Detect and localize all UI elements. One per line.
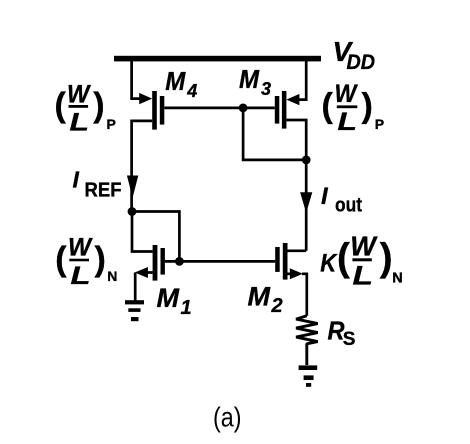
- svg-text:N: N: [392, 271, 402, 287]
- ground symbol under M1: [125, 300, 144, 321]
- svg-text:K: K: [320, 250, 338, 278]
- transistor M3 gate bar: [275, 96, 280, 124]
- node A: IREF node: [128, 207, 137, 216]
- wire: PMOS gate line M4 to M3: [164, 107, 274, 110]
- svg-text:DD: DD: [347, 51, 376, 74]
- M4 label: [165, 66, 197, 101]
- svg-text:(: (: [322, 87, 334, 125]
- wire: node A down to M1 drain lead: [132, 212, 153, 252]
- transistor M3 channel bar: [282, 91, 287, 129]
- node: PMOS gate junction: [239, 104, 248, 113]
- IREF label: [73, 166, 122, 201]
- current arrow Iout: [300, 192, 312, 213]
- (W/L)P label right: [322, 80, 385, 136]
- svg-text:L: L: [338, 108, 358, 136]
- M3 label: [239, 64, 271, 99]
- svg-text:(: (: [337, 236, 350, 279]
- transistor M4 (PMOS) source arrow: [139, 93, 152, 104]
- svg-text:P: P: [375, 116, 384, 132]
- wire: M3 diode connection: [243, 108, 306, 160]
- (W/L)P label left: [55, 81, 116, 137]
- wire: VDD rail to M3 source: [297, 60, 306, 100]
- wire: M2 source lead down to resistor: [288, 274, 307, 316]
- RS label: [328, 315, 356, 350]
- VDD power rail: [114, 56, 321, 62]
- svg-text:1: 1: [181, 297, 192, 319]
- K(W/L)N label: [320, 230, 402, 290]
- wire: M2 drain lead: [288, 249, 307, 252]
- node: M3 drain junction: [302, 156, 311, 165]
- svg-text:W: W: [67, 81, 92, 109]
- wire: M3 drain lead down to M2 drain: [286, 120, 306, 251]
- svg-text:): ): [362, 87, 373, 125]
- svg-text:M: M: [248, 282, 271, 312]
- node B: gate line junction: [175, 257, 184, 266]
- svg-text:W: W: [350, 230, 378, 261]
- svg-text:W: W: [68, 233, 93, 261]
- svg-text:out: out: [335, 194, 362, 216]
- svg-text:): ): [93, 87, 104, 125]
- current arrow IREF: [127, 176, 138, 198]
- transistor M1 gate bar: [161, 248, 165, 275]
- svg-text:N: N: [107, 268, 117, 284]
- wire: NMOS gate line M1 to M2: [165, 260, 275, 263]
- transistor M4 gate bar: [160, 96, 165, 125]
- svg-text:2: 2: [271, 295, 283, 317]
- svg-text:3: 3: [261, 79, 271, 99]
- VDD label: [333, 36, 376, 74]
- wire: M4 drain lead: [132, 121, 153, 213]
- svg-text:M: M: [239, 64, 260, 94]
- transistor M2 channel bar: [283, 243, 288, 280]
- svg-text:I: I: [321, 183, 329, 210]
- transistor M1 channel bar: [153, 245, 158, 281]
- svg-text:(a): (a): [213, 401, 242, 432]
- svg-text:L: L: [70, 109, 90, 137]
- M1 label: [157, 283, 192, 319]
- wire: M1 source lead to ground: [135, 273, 152, 302]
- transistor M3 (PMOS) source arrow: [286, 94, 299, 105]
- svg-text:L: L: [71, 262, 91, 290]
- M2 label: [248, 282, 283, 318]
- svg-text:M: M: [165, 66, 186, 96]
- transistor M4 channel bar: [152, 91, 157, 130]
- caption (a): [213, 401, 242, 432]
- svg-text:P: P: [107, 116, 116, 132]
- Iout label: [321, 183, 362, 217]
- svg-text:I: I: [73, 166, 80, 192]
- resistor RS zigzag: [296, 316, 318, 365]
- svg-text:REF: REF: [85, 180, 122, 202]
- svg-text:S: S: [343, 329, 356, 350]
- ground symbol under RS: [299, 365, 318, 386]
- svg-text:M: M: [157, 283, 180, 313]
- (W/L)N label left: [55, 233, 117, 290]
- svg-text:L: L: [353, 261, 374, 291]
- svg-text:4: 4: [186, 81, 197, 101]
- transistor M2 source arrow: [290, 268, 303, 279]
- svg-text:): ): [380, 236, 393, 279]
- svg-text:(: (: [55, 87, 67, 125]
- svg-text:(: (: [55, 241, 67, 279]
- wire: node A branch right and down to gate line: [132, 212, 179, 262]
- transistor M1 source arrow: [135, 267, 148, 278]
- transistor M2 gate bar: [275, 247, 280, 272]
- svg-text:): ): [95, 241, 106, 279]
- svg-text:W: W: [335, 80, 359, 108]
- wire: VDD rail to M4 source: [132, 60, 141, 99]
